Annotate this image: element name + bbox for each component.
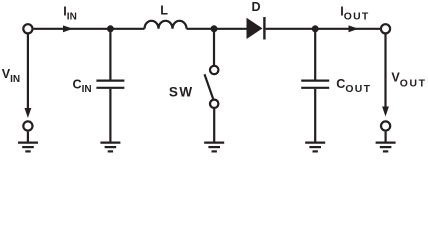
svg-text:SW: SW: [169, 84, 194, 99]
wire: V_IN sense with down arrow: [27, 34, 29, 109]
arrow I_OUT on wire: [349, 25, 359, 32]
ground (bottom left): [18, 132, 38, 152]
svg-text:D: D: [252, 0, 261, 14]
svg-text:COUT: COUT: [336, 77, 371, 95]
output terminal circle (top right): [381, 24, 390, 33]
terminal circle (bottom right): [381, 121, 390, 130]
inductor L: [145, 21, 187, 29]
terminal circle (bottom left): [23, 121, 32, 130]
capacitor C_IN: [96, 29, 124, 142]
node: junction at SW: [211, 25, 218, 32]
wire: V_OUT sense with down arrow: [384, 34, 386, 107]
diode D: [247, 18, 263, 39]
node: junction at C_IN: [107, 25, 114, 32]
svg-text:VIN: VIN: [2, 67, 20, 85]
wire: diode cathode to output terminal: [266, 28, 381, 30]
svg-text:IIN: IIN: [63, 5, 77, 23]
ground (under C_IN): [100, 143, 120, 152]
ground (under C_OUT): [305, 143, 325, 152]
arrow I_IN on wire: [63, 25, 73, 32]
switch SW: [205, 29, 219, 142]
input terminal circle (top left): [23, 24, 32, 33]
node: junction at C_OUT: [312, 25, 319, 32]
ground (bottom right): [376, 132, 396, 152]
svg-text:L: L: [160, 4, 168, 18]
capacitor C_OUT: [301, 29, 329, 142]
wire: input terminal to inductor: [34, 28, 145, 30]
svg-text:IOUT: IOUT: [340, 5, 369, 23]
ground (under SW): [204, 143, 224, 152]
wire: inductor to diode anode: [187, 28, 248, 30]
svg-text:CIN: CIN: [73, 78, 92, 96]
svg-text:VOUT: VOUT: [391, 70, 426, 89]
